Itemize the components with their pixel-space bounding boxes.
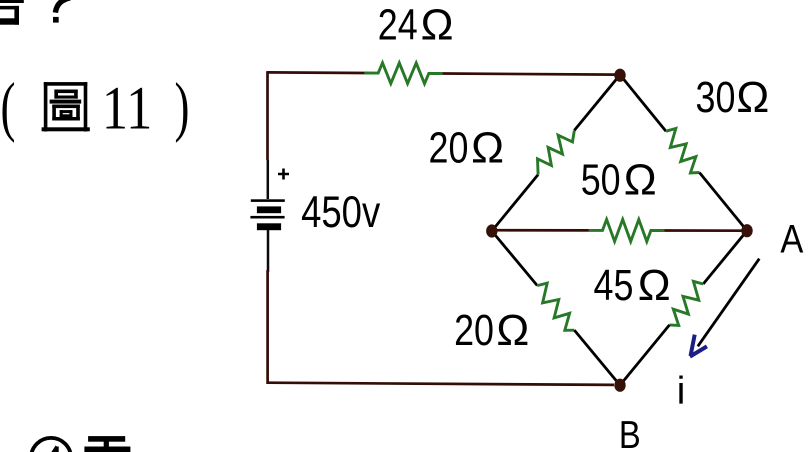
wire: diagonal bottom-left lower segment: [574, 330, 620, 385]
svg-text:(: (: [1, 70, 16, 144]
battery plus sign: [278, 169, 289, 180]
svg-text:Ω: Ω: [624, 155, 657, 204]
node A junction: [741, 224, 752, 237]
svg-text:450v: 450v: [301, 186, 381, 236]
svg-text:B: B: [619, 414, 641, 452]
label 50-ohm: [581, 155, 657, 204]
wire: left vertical upper (corner to battery +): [266, 71, 269, 160]
partial Chinese character bottom-left (top of glyph, cut off): [84, 436, 130, 452]
label 20-ohm upper: [429, 123, 505, 172]
wire: diagonal bottom-left upper segment: [492, 231, 537, 286]
wire: diagonal top-left upper segment: [574, 75, 620, 131]
wire: diagonal bottom-right lower segment: [620, 325, 670, 385]
wire: middle horizontal right segment (50-ohm to node A): [665, 229, 748, 232]
wire: top horizontal left segment (battery top to 24-ohm): [267, 71, 364, 74]
node left junction: [486, 224, 497, 237]
svg-text:Ω: Ω: [638, 261, 671, 310]
label 20-ohm lower: [454, 306, 529, 355]
wire: diagonal bottom-right upper segment: [703, 231, 747, 284]
svg-text:): ): [175, 70, 190, 144]
question mark (cut off at top): [53, 0, 70, 23]
wire: diagonal top-right lower segment: [700, 173, 748, 231]
Chinese character 圖 (drawn): [42, 82, 90, 131]
svg-text:24: 24: [378, 0, 418, 49]
resistor R 20-ohm upper (green zigzag): [538, 131, 575, 175]
resistor R 24-ohm (green zigzag): [365, 63, 443, 84]
node top junction: [614, 69, 625, 82]
resistor R 45-ohm (green zigzag): [670, 281, 704, 325]
svg-text:20: 20: [429, 123, 469, 172]
node B junction: [614, 379, 625, 392]
wire: top horizontal right segment (24-ohm to top node): [442, 74, 615, 75]
svg-text:20: 20: [454, 306, 494, 355]
wire: bottom horizontal (corner to node B): [268, 383, 614, 385]
current arrow head (navy): [690, 335, 707, 357]
resistor R 50-ohm (green zigzag): [589, 219, 665, 241]
battery V1 450v: [250, 199, 284, 230]
current arrow shaft: [698, 259, 760, 347]
resistor R 30-ohm (green zigzag): [666, 129, 700, 173]
svg-text:Ω: Ω: [736, 73, 769, 122]
svg-text:A: A: [780, 216, 803, 261]
label 24-ohm: [378, 0, 454, 49]
wire: middle horizontal left segment (left node to 50-ohm): [492, 229, 589, 232]
circled number 4 bottom-left (cut off): [31, 438, 71, 452]
wire: left vertical lower (battery - to bottom corner): [267, 230, 270, 272]
svg-text:11: 11: [102, 75, 152, 143]
svg-text:Ω: Ω: [471, 124, 504, 173]
svg-text:Ω: Ω: [421, 1, 454, 50]
svg-text:i: i: [677, 370, 686, 413]
label 45-ohm: [594, 260, 671, 309]
wire: diagonal top-left lower segment: [492, 175, 538, 231]
svg-text:30: 30: [696, 73, 736, 122]
label 30-ohm: [696, 73, 770, 122]
wire: diagonal top-right upper segment: [620, 75, 666, 132]
svg-text:Ω: Ω: [496, 306, 529, 355]
svg-text:45: 45: [594, 260, 634, 309]
resistor R 20-ohm lower (green zigzag): [537, 283, 574, 330]
partial Chinese character top-left (bottom of glyph, cut off): [0, 0, 24, 25]
svg-text:50: 50: [581, 155, 621, 204]
